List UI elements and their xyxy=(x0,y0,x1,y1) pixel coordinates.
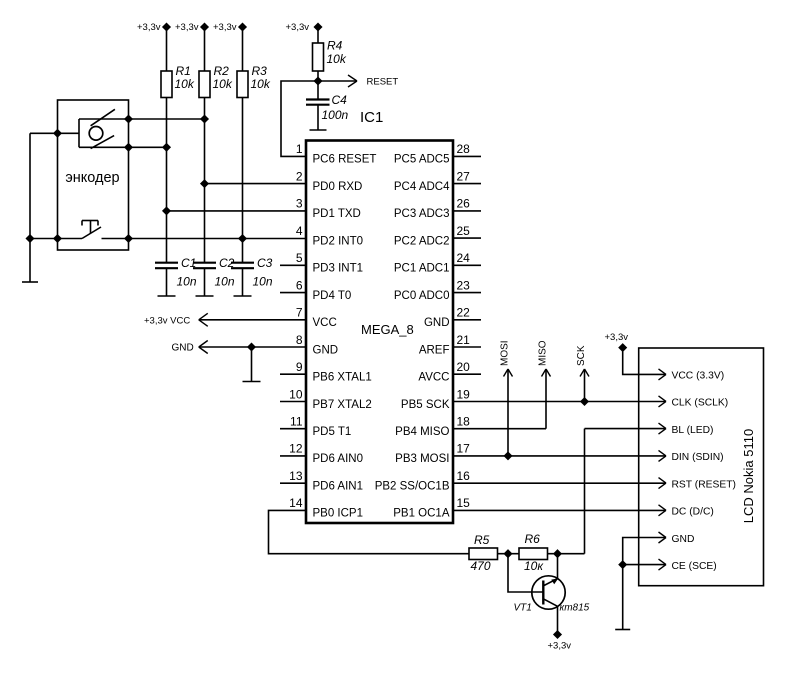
svg-text:энкодер: энкодер xyxy=(65,170,119,186)
svg-text:19: 19 xyxy=(457,387,471,401)
svg-text:+3,3v VCC: +3,3v VCC xyxy=(144,315,190,326)
svg-text:10k: 10k xyxy=(327,52,347,66)
svg-text:10n: 10n xyxy=(177,275,197,289)
svg-text:PB5 SCK: PB5 SCK xyxy=(401,399,450,411)
svg-text:CE (SCE): CE (SCE) xyxy=(672,561,717,572)
svg-text:R6: R6 xyxy=(525,532,541,546)
svg-text:23: 23 xyxy=(457,278,471,292)
svg-text:13: 13 xyxy=(289,469,303,483)
svg-text:DIN (SDIN): DIN (SDIN) xyxy=(672,452,724,463)
svg-text:R2: R2 xyxy=(214,64,230,78)
svg-text:GND: GND xyxy=(313,344,339,356)
svg-text:MEGA_8: MEGA_8 xyxy=(361,322,414,337)
svg-text:2: 2 xyxy=(296,169,303,183)
svg-text:3: 3 xyxy=(296,197,303,211)
svg-text:11: 11 xyxy=(290,415,303,429)
svg-text:PB6 XTAL1: PB6 XTAL1 xyxy=(313,372,372,384)
svg-text:+3,3v: +3,3v xyxy=(213,22,237,33)
svg-text:16: 16 xyxy=(457,469,471,483)
svg-text:R1: R1 xyxy=(176,64,191,78)
svg-text:PC1 ADC1: PC1 ADC1 xyxy=(394,263,450,275)
svg-text:5: 5 xyxy=(296,251,303,265)
svg-text:10k: 10k xyxy=(213,77,233,91)
svg-text:PD5 T1: PD5 T1 xyxy=(313,426,352,438)
svg-text:20: 20 xyxy=(457,360,471,374)
svg-text:PB0 ICP1: PB0 ICP1 xyxy=(313,508,364,520)
svg-text:22: 22 xyxy=(457,306,471,320)
svg-text:7: 7 xyxy=(296,306,303,320)
svg-text:+3,3v: +3,3v xyxy=(286,22,310,33)
svg-text:RST (RESET): RST (RESET) xyxy=(672,479,736,490)
svg-text:LCD Nokia 5110: LCD Nokia 5110 xyxy=(741,429,756,523)
svg-text:470: 470 xyxy=(471,559,491,573)
svg-text:PC2 ADC2: PC2 ADC2 xyxy=(394,235,450,247)
svg-text:MISO: MISO xyxy=(538,340,549,366)
svg-text:PC4 ADC4: PC4 ADC4 xyxy=(394,181,450,193)
svg-text:PC0 ADC0: PC0 ADC0 xyxy=(394,290,450,302)
svg-text:17: 17 xyxy=(457,442,471,456)
svg-text:12: 12 xyxy=(289,442,303,456)
svg-text:10к: 10к xyxy=(524,559,544,573)
svg-text:PD4 T0: PD4 T0 xyxy=(313,290,352,302)
svg-text:18: 18 xyxy=(457,415,471,429)
svg-text:8: 8 xyxy=(296,333,303,347)
svg-text:PB2 SS/OC1B: PB2 SS/OC1B xyxy=(375,481,450,493)
svg-text:PB1 OC1A: PB1 OC1A xyxy=(393,508,450,520)
svg-text:R5: R5 xyxy=(474,533,490,547)
svg-text:GND: GND xyxy=(424,317,450,329)
svg-text:PB3 MOSI: PB3 MOSI xyxy=(395,453,449,465)
svg-text:1: 1 xyxy=(296,142,303,156)
svg-text:PD6 AIN1: PD6 AIN1 xyxy=(313,481,364,493)
svg-text:14: 14 xyxy=(289,496,303,510)
svg-text:4: 4 xyxy=(296,224,303,238)
svg-text:SCK: SCK xyxy=(576,345,587,366)
svg-text:PB7 XTAL2: PB7 XTAL2 xyxy=(313,399,372,411)
svg-text:28: 28 xyxy=(457,142,471,156)
svg-text:R4: R4 xyxy=(327,39,343,53)
svg-text:AVCC: AVCC xyxy=(418,372,449,384)
svg-text:VCC (3.3V): VCC (3.3V) xyxy=(672,371,725,382)
svg-text:PB4 MISO: PB4 MISO xyxy=(395,426,449,438)
svg-text:21: 21 xyxy=(457,333,471,347)
svg-text:100n: 100n xyxy=(322,108,349,122)
svg-text:IC1: IC1 xyxy=(360,109,383,126)
svg-text:10: 10 xyxy=(289,387,303,401)
svg-text:RESET: RESET xyxy=(367,77,399,88)
svg-text:10k: 10k xyxy=(175,77,195,91)
svg-text:кm815: кm815 xyxy=(560,603,590,614)
svg-text:PD2 INT0: PD2 INT0 xyxy=(313,235,364,247)
svg-text:C4: C4 xyxy=(332,93,348,107)
svg-text:24: 24 xyxy=(457,251,471,265)
svg-text:15: 15 xyxy=(457,496,471,510)
svg-text:10k: 10k xyxy=(251,77,271,91)
svg-text:R3: R3 xyxy=(252,64,268,78)
svg-text:GND: GND xyxy=(672,534,695,545)
svg-text:9: 9 xyxy=(296,360,303,374)
svg-text:6: 6 xyxy=(296,278,303,292)
svg-text:10n: 10n xyxy=(215,275,235,289)
svg-text:PD1 TXD: PD1 TXD xyxy=(313,208,361,220)
svg-text:PD3 INT1: PD3 INT1 xyxy=(313,263,364,275)
svg-text:C3: C3 xyxy=(257,256,273,270)
svg-text:PC3 ADC3: PC3 ADC3 xyxy=(394,208,450,220)
svg-text:+3,3v: +3,3v xyxy=(137,22,161,33)
svg-text:BL (LED): BL (LED) xyxy=(672,425,714,436)
svg-text:PC5 ADC5: PC5 ADC5 xyxy=(394,154,450,166)
svg-text:DC (D/C): DC (D/C) xyxy=(672,507,714,518)
svg-text:26: 26 xyxy=(457,197,471,211)
svg-text:+3,3v: +3,3v xyxy=(548,641,572,652)
svg-text:VCC: VCC xyxy=(313,317,337,329)
svg-text:PD0 RXD: PD0 RXD xyxy=(313,181,363,193)
svg-text:25: 25 xyxy=(457,224,471,238)
svg-text:MOSI: MOSI xyxy=(500,340,511,366)
svg-text:27: 27 xyxy=(457,169,471,183)
svg-text:PD6 AIN0: PD6 AIN0 xyxy=(313,453,364,465)
svg-text:CLK (SCLK): CLK (SCLK) xyxy=(672,398,729,409)
svg-text:+3,3v: +3,3v xyxy=(605,332,629,343)
svg-text:10n: 10n xyxy=(253,275,273,289)
svg-text:GND: GND xyxy=(172,343,194,354)
svg-text:PC6 RESET: PC6 RESET xyxy=(313,154,377,166)
svg-text:VT1: VT1 xyxy=(514,603,532,614)
svg-text:AREF: AREF xyxy=(419,344,450,356)
svg-text:+3,3v: +3,3v xyxy=(175,22,199,33)
